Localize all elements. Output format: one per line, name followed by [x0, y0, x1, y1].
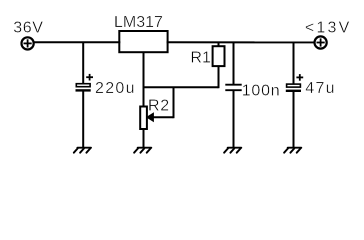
svg-text:<13V: <13V: [305, 19, 352, 36]
svg-text:36V: 36V: [13, 19, 43, 36]
svg-text:47u: 47u: [305, 80, 335, 97]
svg-text:220u: 220u: [95, 80, 136, 97]
svg-text:100n: 100n: [242, 82, 281, 99]
svg-text:LM317: LM317: [114, 14, 163, 31]
svg-text:R1: R1: [190, 50, 211, 67]
svg-text:R2: R2: [148, 97, 170, 114]
